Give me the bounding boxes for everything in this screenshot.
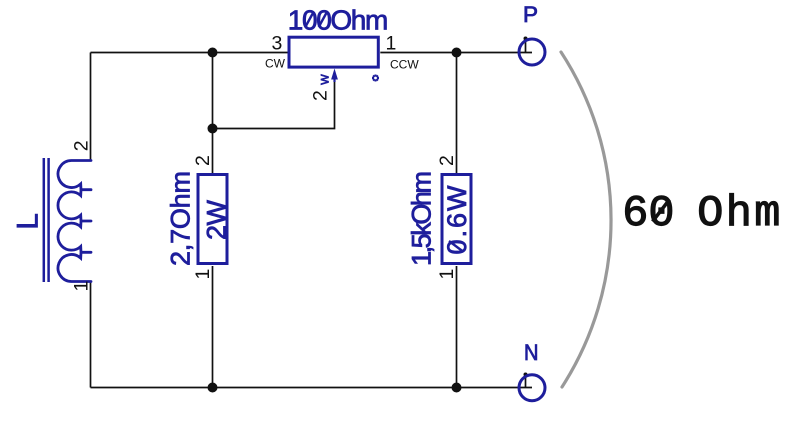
svg-text:1: 1 bbox=[386, 33, 397, 55]
svg-text:60: 60 bbox=[622, 190, 674, 239]
svg-text:100Ohm: 100Ohm bbox=[288, 5, 389, 36]
svg-text:1,5kOhm: 1,5kOhm bbox=[407, 171, 437, 266]
svg-text:L: L bbox=[11, 213, 44, 229]
svg-text:W: W bbox=[319, 74, 331, 85]
svg-text:P: P bbox=[523, 2, 538, 27]
svg-text:CW: CW bbox=[265, 57, 286, 71]
svg-text:2: 2 bbox=[436, 155, 458, 166]
svg-text:1: 1 bbox=[71, 281, 93, 292]
svg-text:2W: 2W bbox=[201, 199, 231, 240]
svg-text:2: 2 bbox=[310, 90, 332, 101]
svg-text:3: 3 bbox=[272, 33, 283, 55]
svg-text:N: N bbox=[524, 340, 539, 365]
svg-text:2: 2 bbox=[70, 140, 92, 151]
svg-text:CCW: CCW bbox=[390, 58, 419, 72]
svg-text:2,7Ohm: 2,7Ohm bbox=[166, 171, 196, 266]
svg-text:Ohm: Ohm bbox=[697, 190, 780, 239]
svg-text:1: 1 bbox=[192, 269, 214, 280]
svg-text:1: 1 bbox=[436, 269, 458, 280]
svg-text:2: 2 bbox=[192, 155, 214, 166]
svg-text:0.6W: 0.6W bbox=[442, 185, 472, 255]
